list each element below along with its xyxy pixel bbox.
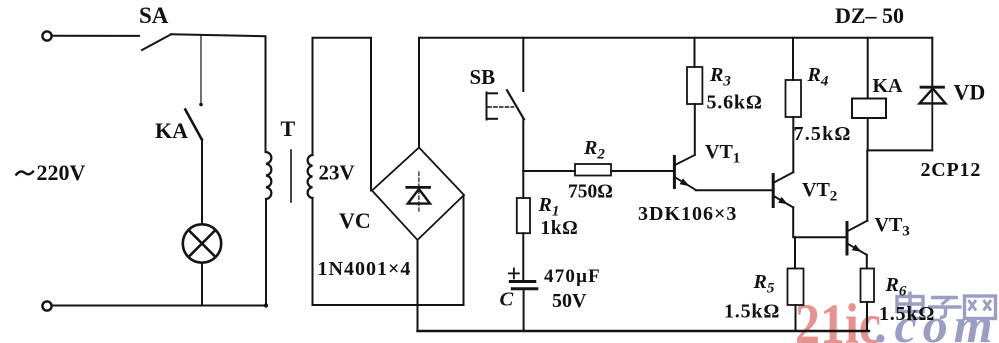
transformer T primary winding xyxy=(266,152,271,199)
wire VD to KA line xyxy=(931,87,933,150)
svg-text:1.5kΩ: 1.5kΩ xyxy=(724,301,780,323)
node KA contact dot xyxy=(199,103,203,107)
wire R3 to top bus xyxy=(694,38,696,67)
svg-text:DZ– 50: DZ– 50 xyxy=(835,3,904,28)
resistor R5 xyxy=(788,269,804,306)
电 xyxy=(897,297,923,312)
capacitor plus sign xyxy=(509,268,519,278)
svg-text:50V: 50V xyxy=(552,290,587,312)
wire VT1 collector to R3 xyxy=(694,104,696,155)
svg-text:SB: SB xyxy=(470,65,496,89)
svg-text:220V: 220V xyxy=(37,160,86,185)
svg-text:1.5kΩ: 1.5kΩ xyxy=(879,303,935,325)
wire bridge minus to bottom bus xyxy=(417,240,419,331)
svg-text:VC: VC xyxy=(339,208,371,233)
wire VT1 emitter to VT2 base xyxy=(696,189,772,191)
wire secondary bottom to bridge right xyxy=(313,195,464,305)
wire SA to transformer corner xyxy=(171,34,266,152)
网 xyxy=(965,296,996,319)
wire KA relay drop xyxy=(867,38,869,99)
svg-text:1kΩ: 1kΩ xyxy=(541,218,579,239)
wire R2 to VT1 base xyxy=(611,170,673,172)
contact KA blade xyxy=(185,110,202,140)
label ~220V xyxy=(16,171,34,176)
rectifier VC bridge diamond xyxy=(372,148,464,241)
pushbutton SB xyxy=(487,90,525,119)
watermark .com xyxy=(876,297,999,343)
wire VT2 emitter down and to VT3 base xyxy=(793,207,847,237)
svg-text:SA: SA xyxy=(139,3,169,28)
terminal top-left xyxy=(42,31,51,40)
svg-text:2CP12: 2CP12 xyxy=(921,159,982,181)
relay coil KA xyxy=(852,99,886,119)
svg-text:470μF: 470μF xyxy=(544,266,601,287)
wire VD drop from bus xyxy=(931,38,933,87)
wire bottom bus xyxy=(418,330,870,332)
resistor R3 xyxy=(687,67,702,104)
wire SB drop xyxy=(522,38,524,91)
resistor R1 xyxy=(517,198,530,233)
resistor R2 xyxy=(575,164,611,176)
wire VT3 collector up to KA line xyxy=(866,150,868,220)
wire C to bottom bus xyxy=(523,290,525,331)
wire R5 to bottom bus xyxy=(795,305,797,331)
transistor VT1 xyxy=(674,155,695,190)
resistor R6 xyxy=(861,269,875,303)
watermark 21ic xyxy=(795,293,881,343)
switch SA blade xyxy=(142,34,171,50)
watermark 电子网 glyphs xyxy=(897,292,996,319)
wire SB to junction xyxy=(522,119,524,171)
wire bridge plus to top bus xyxy=(418,38,420,148)
wire R5 drop xyxy=(794,237,796,268)
wire R1 to C xyxy=(522,233,524,279)
wire R4 to top bus xyxy=(792,38,794,80)
svg-text:1N4001×4: 1N4001×4 xyxy=(318,258,412,280)
diode inside bridge xyxy=(407,172,430,211)
wire VT3 emitter to R6 xyxy=(866,255,868,269)
wire top bus xyxy=(419,37,932,39)
子 xyxy=(931,296,958,299)
wire KA to lamp xyxy=(201,140,203,225)
svg-text:750Ω: 750Ω xyxy=(568,182,613,203)
wire R6 to bottom bus xyxy=(866,302,868,331)
wire KA thin drop xyxy=(200,35,202,104)
wire KA coil to VT3 collector xyxy=(867,118,869,150)
node primary bottom junction xyxy=(264,303,268,307)
capacitor C xyxy=(510,282,537,289)
wire lamp to bottom bus xyxy=(201,263,203,306)
svg-text:KA: KA xyxy=(155,118,188,143)
svg-text:23V: 23V xyxy=(319,161,355,185)
wire bottom-left bus xyxy=(52,305,266,307)
resistor R4 xyxy=(786,80,802,117)
wire junction to R1 xyxy=(522,171,524,198)
transformer core xyxy=(290,150,292,202)
terminal bottom-left xyxy=(42,301,51,310)
transformer T secondary winding xyxy=(308,155,313,198)
wire VT2 collector to R4 xyxy=(792,117,794,172)
svg-text:7.5kΩ: 7.5kΩ xyxy=(794,123,852,145)
svg-text:21ic: 21ic xyxy=(795,293,881,343)
svg-text:T: T xyxy=(281,116,296,141)
wire primary bottom xyxy=(265,199,267,306)
svg-text:KA: KA xyxy=(873,75,904,97)
transistor VT2 xyxy=(773,172,793,207)
wire secondary top to bridge left xyxy=(313,38,372,191)
wire top-left to SA xyxy=(52,35,139,37)
diode VD xyxy=(920,87,946,103)
lamp EL xyxy=(183,224,221,262)
svg-text:VD: VD xyxy=(954,80,986,105)
svg-text:3DK106×3: 3DK106×3 xyxy=(638,203,737,225)
wire KA-VD horizontal xyxy=(868,149,933,151)
transistor VT3 xyxy=(847,221,867,255)
svg-text:5.6kΩ: 5.6kΩ xyxy=(707,92,763,114)
svg-text:C: C xyxy=(500,289,514,311)
wire junction to R2 xyxy=(523,170,575,172)
